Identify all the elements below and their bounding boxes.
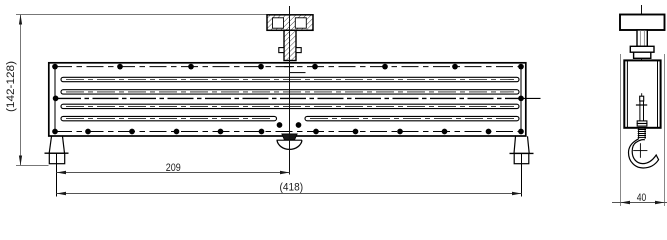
svg-text:40: 40 [637,192,647,204]
svg-text:209: 209 [166,162,181,174]
svg-text:(142-128): (142-128) [5,61,17,112]
svg-text:(418): (418) [280,181,304,193]
